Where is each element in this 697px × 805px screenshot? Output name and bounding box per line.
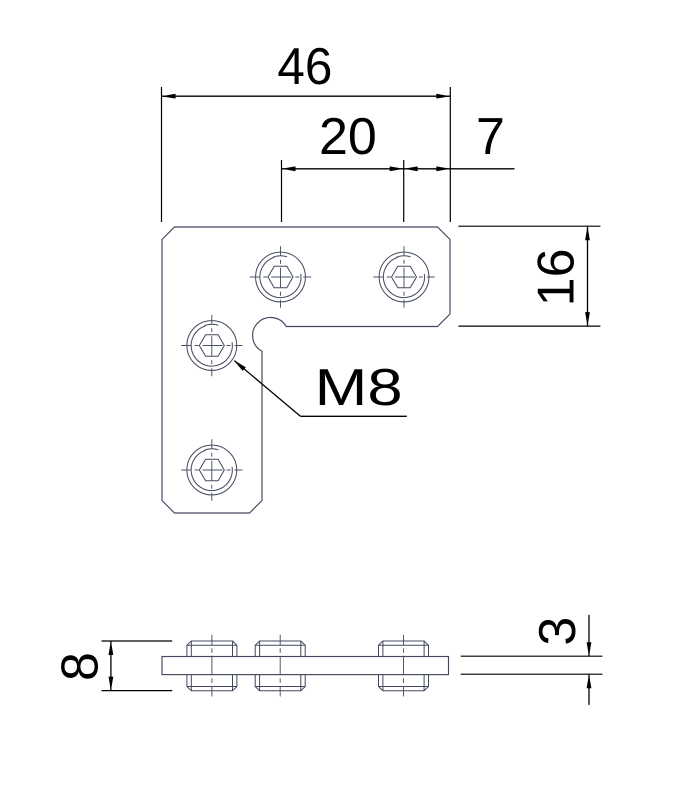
hole H4 outer circle <box>187 445 237 495</box>
svg-text:7: 7 <box>476 108 505 166</box>
bracket outline <box>162 227 450 513</box>
svg-text:16: 16 <box>528 248 586 306</box>
dimension 8 line <box>110 641 112 691</box>
dimension 8 extension lines <box>102 640 173 642</box>
side view plate <box>162 657 449 675</box>
nut N3 center line <box>403 635 405 697</box>
hole H1 thread arc <box>260 257 301 297</box>
nut N1 lower profile <box>187 675 237 691</box>
svg-text:M8: M8 <box>315 359 403 417</box>
dimension 3 line <box>588 615 590 656</box>
nut N1 upper profile <box>187 641 237 657</box>
svg-text:20: 20 <box>319 108 377 166</box>
dimension 46 extension lines <box>161 87 163 222</box>
dimension 7 line <box>404 168 515 170</box>
hole H4 center lines <box>211 439 213 500</box>
hole H2 outer circle <box>379 252 429 302</box>
hole H3 hex socket <box>199 335 224 357</box>
hole H1 outer circle <box>256 252 306 302</box>
nut N3 upper profile <box>379 641 429 657</box>
hole H4 hex socket <box>199 459 224 481</box>
hole H3 center lines <box>211 315 213 376</box>
nut N2 upper profile <box>255 641 305 657</box>
dimension 16 extension lines <box>458 225 600 227</box>
dimension 16 line <box>587 226 589 326</box>
hole H3 thread arc <box>191 326 232 366</box>
dimension 20 extension lines <box>281 160 283 222</box>
hole H2 thread arc <box>383 257 424 297</box>
hole H1 hex socket <box>268 266 293 288</box>
hole H3 outer circle <box>187 321 237 371</box>
hole H4 thread arc <box>191 450 232 490</box>
hole H2 center lines <box>403 246 405 307</box>
nut N1 center line <box>211 635 213 697</box>
nut N2 lower profile <box>255 675 305 691</box>
svg-text:3: 3 <box>529 617 587 646</box>
label M8 leader <box>300 415 406 417</box>
dimension 20 line <box>282 168 404 170</box>
nut N2 center line <box>279 635 281 697</box>
svg-text:46: 46 <box>277 38 332 96</box>
nut N3 lower profile <box>379 675 429 691</box>
hole H2 hex socket <box>392 266 417 288</box>
svg-text:8: 8 <box>52 652 110 681</box>
hole H1 center lines <box>280 246 282 307</box>
dimension 3 extension lines <box>461 655 603 657</box>
dimension 46 line <box>162 95 451 97</box>
